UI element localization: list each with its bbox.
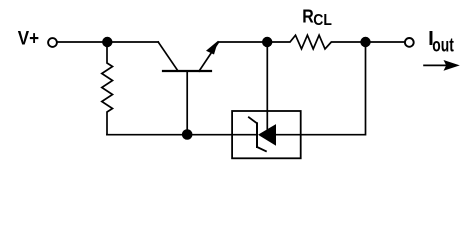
transistor Q1 emitter lead: [199, 42, 218, 71]
wire node D down to shunt regulator anode: [276, 42, 366, 135]
svg-text:CL: CL: [313, 12, 332, 29]
zener diode triangle (anode): [258, 124, 276, 146]
node B junction dot: [182, 129, 193, 140]
wire node C to shunt regulator REF: [266, 42, 268, 130]
svg-text:out: out: [432, 36, 454, 57]
transistor Q1 collector lead: [158, 42, 178, 71]
wire node D to terminal Iout: [366, 41, 405, 43]
node A junction dot: [102, 37, 112, 47]
wire bottom (node B to box): [107, 134, 232, 136]
zener cathode bar: [249, 117, 266, 151]
node C junction dot: [262, 37, 272, 47]
resistor RCL: [267, 35, 366, 49]
resistor R1 (vertical): [102, 42, 113, 135]
terminal V+: [48, 38, 57, 47]
wire node A to transistor collector: [107, 41, 158, 43]
wire base to node B: [186, 71, 188, 135]
Iout direction arrow shaft: [423, 64, 447, 66]
svg-text:V+: V+: [18, 28, 39, 49]
wire emitter to node C: [218, 41, 267, 43]
node D junction dot: [360, 37, 370, 47]
terminal Iout: [405, 38, 414, 47]
Iout direction arrowhead: [444, 60, 460, 71]
transistor Q1 emitter arrowhead: [206, 41, 218, 55]
wire inside box to zener cathode: [232, 134, 257, 136]
wire V+ to node A: [57, 41, 104, 43]
transistor Q1 base bar: [163, 70, 211, 72]
shunt regulator box: [232, 111, 301, 158]
